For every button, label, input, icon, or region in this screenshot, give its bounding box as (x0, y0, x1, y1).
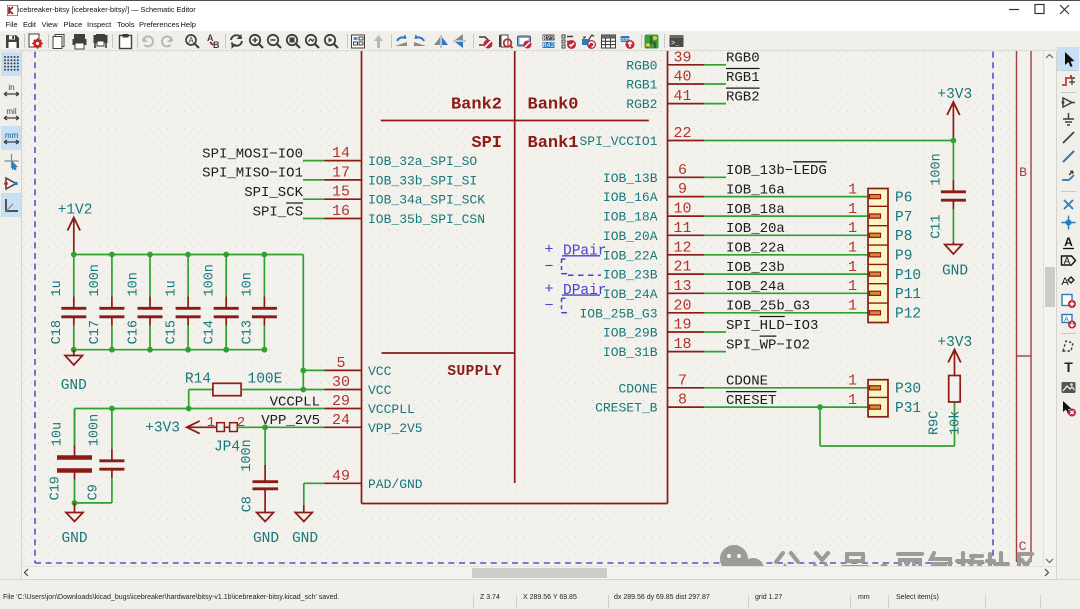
svg-text:1: 1 (848, 392, 857, 409)
svg-text:5: 5 (336, 355, 345, 372)
svg-text:10n: 10n (126, 272, 141, 296)
svg-text:100n: 100n (930, 153, 945, 185)
svg-text:29: 29 (332, 393, 350, 410)
svg-text:PAD/GND: PAD/GND (368, 477, 423, 492)
svg-text:P6: P6 (895, 190, 912, 206)
svg-text:SPI: SPI (471, 134, 502, 153)
svg-text:+: + (544, 281, 553, 298)
svg-text:30: 30 (332, 374, 350, 391)
svg-text:17: 17 (332, 164, 350, 181)
svg-text:VCCPLL: VCCPLL (368, 402, 415, 417)
svg-text:IOB_24A: IOB_24A (603, 287, 658, 302)
svg-text:CRESET_B: CRESET_B (595, 401, 658, 416)
svg-text:18: 18 (673, 336, 691, 353)
svg-text:GND: GND (61, 531, 87, 547)
svg-text:1u: 1u (164, 280, 179, 296)
svg-text:−: − (544, 298, 553, 315)
svg-text:100n: 100n (203, 264, 218, 296)
svg-text:SPI_CS: SPI_CS (253, 204, 303, 220)
svg-text:1: 1 (848, 278, 857, 295)
svg-text:11: 11 (673, 220, 691, 237)
svg-text:GND: GND (61, 378, 87, 394)
svg-text:6: 6 (678, 162, 687, 179)
svg-text:1: 1 (848, 220, 857, 237)
svg-text:in: in (8, 83, 14, 92)
svg-text:IOB_18a: IOB_18a (726, 202, 785, 218)
svg-text:+3V3: +3V3 (937, 87, 972, 103)
svg-text:RGB2: RGB2 (626, 97, 657, 112)
svg-text:mm: mm (4, 131, 18, 140)
svg-text:Bank1: Bank1 (528, 134, 579, 153)
svg-text:24: 24 (332, 412, 350, 429)
svg-text:+1V2: +1V2 (58, 203, 93, 219)
svg-text:R??: R?? (542, 34, 554, 41)
svg-text:IOB_20a: IOB_20a (726, 221, 785, 237)
svg-text:1: 1 (848, 201, 857, 218)
svg-text:A: A (188, 36, 194, 45)
svg-text:>_: >_ (671, 40, 680, 48)
svg-text:VPP_2V5: VPP_2V5 (368, 421, 423, 436)
svg-text:1: 1 (848, 181, 857, 198)
svg-text:C8: C8 (241, 496, 256, 512)
svg-text:10u: 10u (50, 422, 65, 446)
svg-text:SPI_VCCIO1: SPI_VCCIO1 (579, 134, 657, 149)
svg-text:IOB_33b_SPI_SI: IOB_33b_SPI_SI (368, 173, 477, 188)
svg-text:40: 40 (673, 69, 691, 86)
svg-text:GND: GND (942, 264, 968, 280)
svg-text:A: A (1061, 276, 1069, 288)
svg-text:100n: 100n (88, 264, 103, 296)
svg-text:P31: P31 (895, 401, 921, 417)
svg-text:1: 1 (848, 298, 857, 315)
svg-text:T: T (1064, 359, 1073, 375)
svg-text:CDONE: CDONE (618, 381, 657, 396)
svg-text:IOB_34a_SPI_SCK: IOB_34a_SPI_SCK (368, 193, 485, 208)
svg-text:12: 12 (673, 239, 691, 256)
svg-text:100n: 100n (88, 414, 103, 446)
svg-text:IOB_24a: IOB_24a (726, 279, 785, 295)
svg-text:1: 1 (848, 373, 857, 390)
svg-text:IOB_13b−LEDG: IOB_13b−LEDG (726, 163, 827, 179)
svg-text:C14: C14 (203, 320, 218, 344)
svg-text:Bank2: Bank2 (451, 96, 502, 115)
svg-text:39: 39 (673, 51, 691, 66)
svg-text:RGB1: RGB1 (726, 70, 760, 86)
svg-text:C16: C16 (126, 320, 141, 344)
svg-text:22: 22 (673, 125, 691, 142)
svg-text:RGB0: RGB0 (626, 58, 657, 73)
svg-text:2: 2 (237, 415, 245, 431)
svg-text:−: − (544, 259, 553, 276)
svg-text:SPI_HLD−IO3: SPI_HLD−IO3 (726, 318, 818, 334)
svg-text:R9C: R9C (928, 411, 943, 435)
svg-text:C9: C9 (87, 484, 102, 500)
svg-text:P7: P7 (895, 210, 912, 226)
svg-text:IOB_25b_G3: IOB_25b_G3 (726, 299, 810, 315)
svg-text:49: 49 (332, 468, 350, 485)
svg-text:10n: 10n (241, 272, 256, 296)
svg-text:RGB1: RGB1 (626, 78, 657, 93)
svg-text:20: 20 (673, 297, 691, 314)
svg-text:B: B (1019, 165, 1027, 180)
svg-text:IOB_25B_G3: IOB_25B_G3 (579, 306, 657, 321)
svg-text:IOB_35b_SPI_CSN: IOB_35b_SPI_CSN (368, 212, 485, 227)
svg-text:1u: 1u (50, 280, 65, 296)
svg-text:P8: P8 (895, 229, 912, 245)
svg-text:41: 41 (673, 88, 691, 105)
svg-text:IOB_32a_SPI_SO: IOB_32a_SPI_SO (368, 154, 477, 169)
svg-text:VCCPLL: VCCPLL (270, 394, 320, 410)
svg-text:IOB_16A: IOB_16A (603, 190, 658, 205)
svg-text:C15: C15 (164, 320, 179, 344)
svg-text:9: 9 (678, 181, 687, 198)
svg-text:10: 10 (673, 201, 691, 218)
svg-text:P11: P11 (895, 287, 921, 303)
svg-text:DPair: DPair (563, 283, 607, 299)
svg-text:15: 15 (332, 184, 350, 201)
svg-text:A: A (1064, 317, 1069, 324)
svg-text:C: C (1019, 539, 1027, 554)
svg-text:VCC: VCC (368, 364, 392, 379)
svg-text:100E: 100E (248, 372, 283, 388)
svg-text:IOB_18A: IOB_18A (603, 210, 658, 225)
svg-text:100n: 100n (240, 439, 255, 471)
svg-text:CDONE: CDONE (726, 374, 768, 390)
svg-text:RGB2: RGB2 (726, 89, 760, 105)
svg-text:21: 21 (673, 259, 691, 276)
svg-text:C19: C19 (49, 476, 64, 500)
svg-text:IOB_16a: IOB_16a (726, 182, 785, 198)
svg-text:IOB_23b: IOB_23b (726, 260, 785, 276)
svg-text:1: 1 (207, 415, 215, 431)
svg-text:R14: R14 (185, 372, 211, 388)
svg-text:IOB_31B: IOB_31B (603, 345, 658, 360)
svg-text:IOB_23B: IOB_23B (603, 268, 658, 283)
svg-text:+: + (544, 242, 553, 259)
svg-text:8: 8 (678, 392, 687, 409)
svg-text:R42: R42 (542, 42, 554, 49)
svg-text:1: 1 (848, 240, 857, 257)
svg-text:GND: GND (292, 531, 318, 547)
svg-text:IOB_13B: IOB_13B (603, 171, 658, 186)
svg-text:SPI_MISO−IO1: SPI_MISO−IO1 (202, 166, 303, 182)
svg-text:Bank0: Bank0 (528, 96, 579, 115)
svg-text:SUPPLY: SUPPLY (447, 364, 502, 380)
svg-text:IOB_22A: IOB_22A (603, 248, 658, 263)
svg-text:C18: C18 (50, 320, 65, 344)
svg-text:GND: GND (253, 531, 279, 547)
svg-text:IOB_22a: IOB_22a (726, 241, 785, 257)
svg-text:13: 13 (673, 278, 691, 295)
svg-text:C11: C11 (930, 214, 945, 238)
svg-text:C13: C13 (241, 320, 256, 344)
svg-text:P10: P10 (895, 268, 921, 284)
svg-text:C17: C17 (88, 320, 103, 344)
svg-text:JP4: JP4 (214, 440, 240, 456)
svg-text:+3V3: +3V3 (145, 421, 180, 437)
svg-text:19: 19 (673, 317, 691, 334)
svg-text:SPI_WP−IO2: SPI_WP−IO2 (726, 337, 810, 353)
svg-text:1: 1 (848, 259, 857, 276)
svg-text:10k: 10k (949, 411, 964, 435)
svg-text:A: A (1063, 256, 1070, 267)
svg-text:SPI_SCK: SPI_SCK (244, 185, 303, 201)
svg-text:7: 7 (678, 372, 687, 389)
svg-text:P30: P30 (895, 382, 921, 398)
svg-text:SPI_MOSI−IO0: SPI_MOSI−IO0 (202, 146, 303, 162)
svg-text:mil: mil (6, 107, 16, 116)
svg-text:CRESET: CRESET (726, 393, 776, 409)
svg-text:P12: P12 (895, 307, 921, 323)
svg-text:14: 14 (332, 145, 350, 162)
svg-text:16: 16 (332, 203, 350, 220)
svg-text:DPair: DPair (563, 244, 607, 260)
svg-text:P9: P9 (895, 249, 912, 265)
svg-text:IOB_20A: IOB_20A (603, 229, 658, 244)
svg-text:VCC: VCC (368, 383, 392, 398)
svg-text:RGB0: RGB0 (726, 51, 760, 67)
svg-text:VPP_2V5: VPP_2V5 (261, 413, 320, 429)
svg-text:B: B (213, 40, 220, 50)
svg-text:A: A (1064, 235, 1073, 249)
svg-text:IOB_29B: IOB_29B (603, 326, 658, 341)
